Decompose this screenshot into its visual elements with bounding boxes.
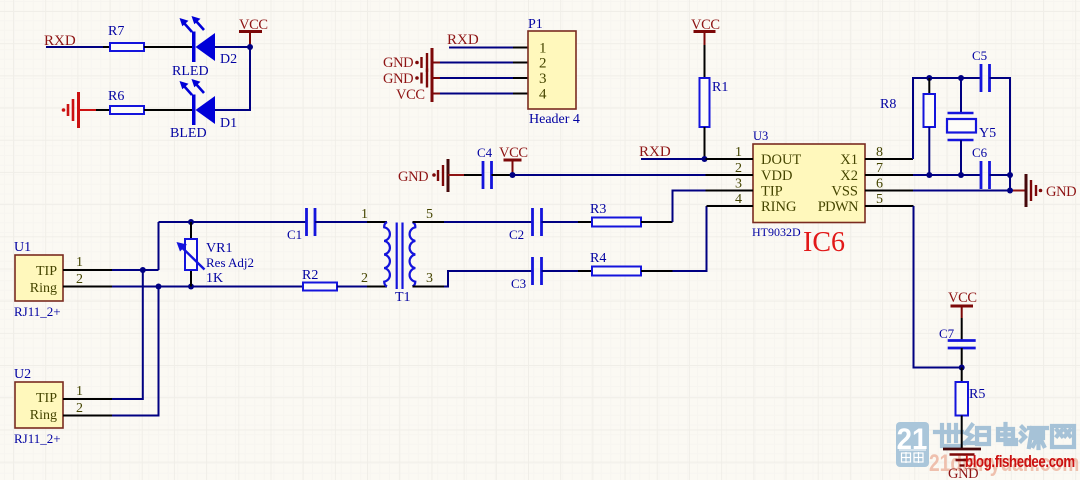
svg-text:5: 5 bbox=[426, 207, 433, 222]
svg-text:8: 8 bbox=[876, 145, 883, 160]
svg-text:RJ11_2+: RJ11_2+ bbox=[14, 431, 61, 446]
node rail Y5 bbox=[958, 75, 964, 81]
svg-text:1: 1 bbox=[539, 41, 547, 57]
crystal Y5 bbox=[947, 78, 996, 175]
svg-text:X1: X1 bbox=[840, 152, 858, 168]
power VCC (above R1) bbox=[691, 17, 720, 45]
svg-text:C2: C2 bbox=[509, 227, 524, 242]
capacitor C5 bbox=[972, 48, 990, 92]
wire U2 TIP drop bbox=[112, 270, 143, 399]
wire VCC to R1 bbox=[704, 45, 706, 78]
svg-text:TIP: TIP bbox=[36, 264, 57, 279]
svg-text:RLED: RLED bbox=[172, 64, 209, 79]
connector U1 bbox=[14, 240, 112, 319]
svg-text:GND: GND bbox=[383, 71, 413, 87]
wire U2 Ring drop bbox=[112, 287, 159, 416]
svg-text:2: 2 bbox=[361, 271, 368, 286]
svg-text:R4: R4 bbox=[590, 251, 606, 266]
svg-text:1: 1 bbox=[76, 255, 83, 270]
node VDD junction bbox=[510, 172, 516, 178]
svg-text:U1: U1 bbox=[14, 240, 31, 255]
ground (top-left, red) bbox=[62, 92, 96, 128]
capacitor C7 bbox=[939, 326, 976, 348]
svg-text:R1: R1 bbox=[712, 80, 728, 95]
resistor R4 bbox=[578, 251, 641, 276]
svg-text:GND: GND bbox=[1046, 184, 1076, 200]
svg-text:GND: GND bbox=[383, 55, 413, 71]
resistor R2 bbox=[302, 268, 337, 291]
wire C7 to node bbox=[961, 348, 963, 368]
svg-text:RJ11_2+: RJ11_2+ bbox=[14, 304, 61, 319]
wire GND to C4 bbox=[464, 174, 483, 176]
svg-text:VSS: VSS bbox=[831, 184, 858, 200]
svg-text:1: 1 bbox=[361, 207, 368, 222]
svg-text:2: 2 bbox=[735, 161, 742, 176]
svg-text:Ring: Ring bbox=[30, 281, 57, 296]
svg-text:5: 5 bbox=[876, 192, 883, 207]
node VR1 bottom bbox=[188, 284, 194, 290]
svg-text:RING: RING bbox=[761, 199, 797, 215]
wire R3 to U3 pin3 bbox=[641, 221, 673, 223]
svg-text:7: 7 bbox=[876, 161, 883, 176]
svg-text:R6: R6 bbox=[108, 89, 124, 104]
watermark chinese text bbox=[935, 424, 1074, 448]
wire X1 to crystal rail bbox=[913, 78, 981, 159]
svg-text:Res Adj2: Res Adj2 bbox=[206, 255, 254, 270]
wire R4 to U3 pin4 bbox=[641, 270, 673, 272]
connector P1 bbox=[513, 17, 580, 127]
resistor R8 bbox=[880, 78, 935, 175]
svg-text:R2: R2 bbox=[302, 268, 318, 283]
svg-text:TIP: TIP bbox=[761, 184, 783, 200]
node C7-R5 junction bbox=[959, 365, 965, 371]
resistor R3 bbox=[578, 202, 641, 227]
wire VCC node down to D1 bbox=[215, 47, 250, 110]
svg-text:D1: D1 bbox=[220, 116, 237, 131]
wire TIP riser up to top row bbox=[158, 222, 160, 270]
node R1-RXD junction bbox=[702, 156, 708, 162]
wire U1 pin1 to TIP riser bbox=[112, 269, 159, 271]
svg-text:IC6: IC6 bbox=[803, 227, 845, 258]
wire VCC to P1 pin4 bbox=[440, 93, 513, 95]
wire R7 to D2 bbox=[144, 46, 192, 48]
svg-text:2: 2 bbox=[76, 401, 83, 416]
svg-text:BLED: BLED bbox=[170, 126, 207, 141]
svg-text:2: 2 bbox=[76, 272, 83, 287]
wire T1 pin3 step up to C3 row bbox=[444, 271, 533, 287]
svg-text:C5: C5 bbox=[972, 48, 987, 63]
capacitor C3 bbox=[511, 257, 542, 291]
resistor R7 bbox=[103, 24, 144, 51]
node VR1 top bbox=[188, 219, 194, 225]
connector U2 bbox=[14, 367, 112, 446]
power VCC (P1 pin4) bbox=[396, 87, 440, 103]
IC U3 HT9032D bbox=[706, 129, 914, 239]
svg-text:HT9032D: HT9032D bbox=[752, 225, 801, 239]
capacitor C1 bbox=[287, 208, 315, 242]
LED D1 bbox=[170, 79, 237, 141]
svg-text:1: 1 bbox=[76, 384, 83, 399]
svg-text:C1: C1 bbox=[287, 227, 302, 242]
wire right drop to VSS row bbox=[1009, 175, 1011, 191]
wire T1 pin1 stub bbox=[367, 221, 387, 223]
svg-text:GND: GND bbox=[398, 169, 428, 185]
svg-text:C4: C4 bbox=[477, 145, 493, 160]
wire C4 to VCC node bbox=[492, 174, 513, 176]
watermark blog text bbox=[965, 452, 1075, 472]
wire PDWN to bottom bbox=[914, 206, 962, 368]
wire U1 pin2 row bbox=[112, 286, 303, 288]
ground (bottom right) bbox=[943, 449, 981, 480]
power VCC (above C4 node) bbox=[499, 145, 528, 175]
watermark logo 21 box bbox=[896, 422, 929, 467]
wire C1 to T1 pin1 bbox=[315, 221, 367, 223]
svg-text:R7: R7 bbox=[108, 24, 124, 39]
wire R5 to ground bbox=[961, 416, 963, 450]
capacitor C2 bbox=[509, 208, 542, 242]
power port bar bbox=[431, 48, 434, 102]
power GND (P1 pin2) bbox=[383, 53, 440, 72]
power VCC (bottom right) bbox=[948, 290, 977, 318]
svg-text:R5: R5 bbox=[969, 387, 985, 402]
svg-text:6: 6 bbox=[876, 177, 883, 192]
wire T1 pin5 stub bbox=[413, 221, 445, 223]
svg-text:4: 4 bbox=[539, 87, 547, 103]
wire VCC to C7 bbox=[961, 318, 963, 340]
svg-text:Header 4: Header 4 bbox=[529, 112, 580, 127]
wire C5 to right drop bbox=[990, 78, 1011, 175]
svg-text:2: 2 bbox=[539, 56, 547, 72]
svg-text:1: 1 bbox=[735, 145, 742, 160]
LED D2 bbox=[172, 16, 237, 79]
node X2 R8 bbox=[926, 172, 932, 178]
wire RXD to R7 bbox=[46, 46, 103, 48]
transformer T1 bbox=[361, 207, 433, 305]
node U2 TIP tap bbox=[140, 267, 146, 273]
power GND (VSS) bbox=[1010, 174, 1076, 207]
potentiometer VR1 bbox=[177, 222, 255, 287]
node VSS bbox=[1007, 188, 1013, 194]
svg-text:TIP: TIP bbox=[36, 391, 57, 406]
power GND (near C4) bbox=[398, 159, 464, 192]
svg-text:R3: R3 bbox=[590, 202, 606, 217]
wire R6 to D1 bbox=[144, 109, 192, 111]
svg-text:C7: C7 bbox=[939, 326, 955, 341]
wire TIP top row to C1 bbox=[159, 221, 307, 223]
wire VDD to U3 pin2 bbox=[513, 174, 706, 176]
power VCC (top-left) bbox=[239, 17, 268, 47]
svg-text:3: 3 bbox=[539, 71, 547, 87]
svg-text:D2: D2 bbox=[220, 52, 237, 67]
node rail R8 bbox=[926, 75, 932, 81]
wire C2 to R3 bbox=[542, 221, 579, 223]
svg-text:T1: T1 bbox=[395, 290, 411, 305]
svg-text:1K: 1K bbox=[206, 271, 223, 286]
svg-text:RXD: RXD bbox=[447, 32, 479, 48]
svg-text:VCC: VCC bbox=[396, 87, 425, 103]
capacitor C6 bbox=[972, 145, 990, 189]
wire C6 to right drop bbox=[990, 174, 1011, 176]
wire D2 to VCC node bbox=[215, 46, 250, 48]
wire C3 to R4 bbox=[542, 270, 579, 272]
resistor R1 bbox=[700, 78, 729, 127]
svg-text:Ring: Ring bbox=[30, 408, 57, 423]
node U2 Ring tap bbox=[156, 284, 162, 290]
node X2 Y5 bbox=[958, 172, 964, 178]
svg-text:VCC: VCC bbox=[948, 290, 977, 306]
wire VSS row bbox=[913, 190, 1010, 192]
svg-text:C6: C6 bbox=[972, 145, 988, 160]
svg-text:PDWN: PDWN bbox=[818, 199, 859, 215]
node VCC-D2 junction bbox=[247, 44, 253, 50]
svg-text:DOUT: DOUT bbox=[761, 152, 801, 168]
svg-text:Y5: Y5 bbox=[979, 126, 996, 141]
wire gnd to R6 bbox=[96, 109, 110, 111]
power GND (P1 pin3) bbox=[383, 69, 440, 88]
svg-text:U3: U3 bbox=[753, 129, 768, 143]
wire R2 to T1 pin2 bbox=[337, 286, 367, 288]
svg-text:3: 3 bbox=[735, 177, 742, 192]
wire T1 pin2 stub bbox=[367, 286, 387, 288]
wire GND to P1 pin2 bbox=[440, 62, 513, 64]
resistor R5 bbox=[956, 368, 986, 416]
wire node to U3 pin1 bbox=[705, 158, 706, 160]
svg-text:3: 3 bbox=[426, 271, 433, 286]
svg-text:R8: R8 bbox=[880, 97, 896, 112]
wire T1 pin3 stub bbox=[413, 286, 445, 288]
svg-text:VDD: VDD bbox=[761, 168, 792, 184]
svg-text:U2: U2 bbox=[14, 367, 31, 382]
wire RXD to node bbox=[641, 158, 705, 160]
svg-text:X2: X2 bbox=[840, 168, 858, 184]
wire T1 pin5 to C2 bbox=[444, 221, 533, 223]
svg-text:VR1: VR1 bbox=[206, 241, 232, 256]
svg-text:P1: P1 bbox=[528, 17, 543, 32]
wire X2 row bbox=[913, 174, 981, 176]
wire R1 to node bbox=[704, 127, 706, 159]
node right drop X2 bbox=[1007, 172, 1013, 178]
svg-text:RXD: RXD bbox=[639, 144, 671, 160]
capacitor C4 bbox=[477, 145, 493, 189]
wire GND to P1 pin3 bbox=[440, 77, 513, 79]
wire RXD to P1 pin1 bbox=[449, 47, 513, 49]
svg-text:4: 4 bbox=[735, 192, 742, 207]
resistor R6 bbox=[108, 89, 144, 114]
svg-text:C3: C3 bbox=[511, 276, 526, 291]
